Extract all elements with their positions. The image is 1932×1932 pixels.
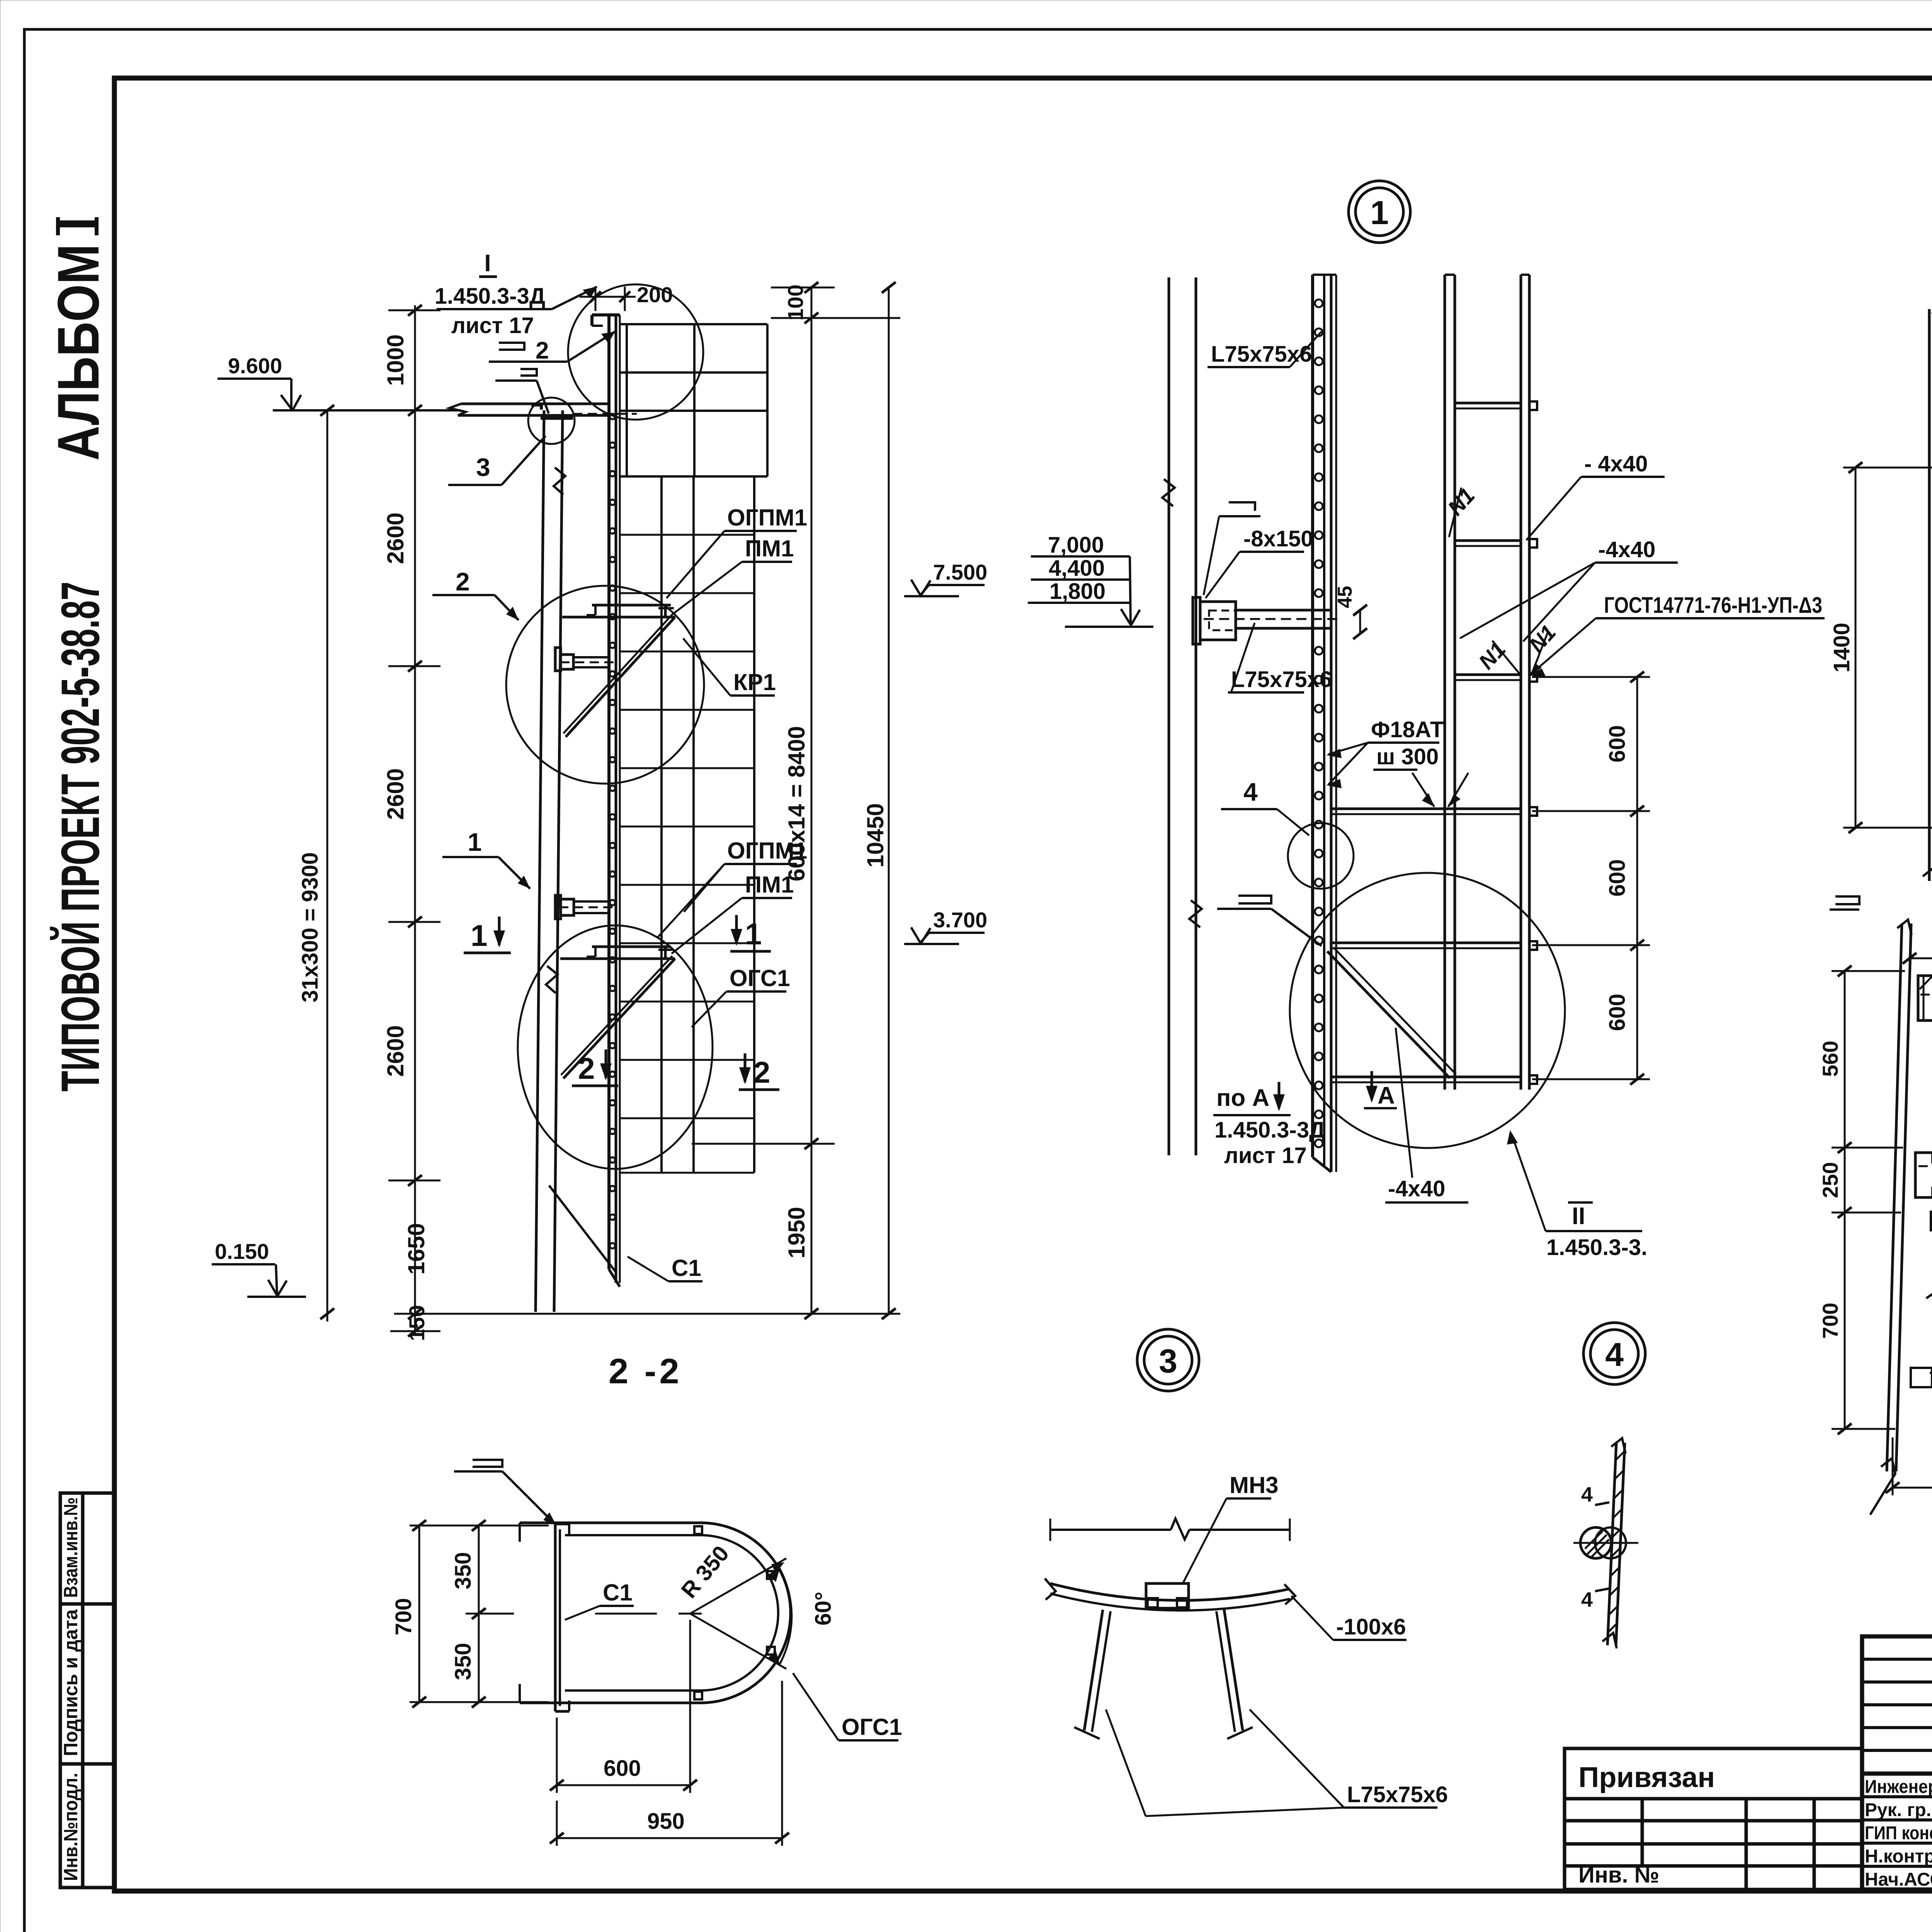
node circle 3 [1137,1329,1199,1391]
svg-text:МН3: МН3 [1230,1472,1279,1498]
svg-text:ТИПОВОЙ ПРОЕКТ 902-5-38.87: ТИПОВОЙ ПРОЕКТ 902-5-38.87 [50,582,111,1092]
label L75x75x6 upper [1207,332,1321,367]
tank wall (view 2-2) [536,410,544,1312]
rung 4 support level [1331,808,1521,810]
lower platform I-beam section [664,947,667,959]
svg-text:II: II [1572,1203,1585,1230]
plan stringer channel C1 [554,1524,557,1711]
node 3 detail circle [528,398,575,444]
dimension chain left outer 31x300 [320,405,334,1321]
dimension 10450 [882,282,896,1319]
weld tag N1 b [1474,637,1521,675]
stamp box inv [60,1764,114,1888]
svg-text:2600: 2600 [383,1025,408,1077]
dim 250 sec11 [1903,932,1932,983]
svg-text:1.450.3-3Д: 1.450.3-3Д [435,284,545,309]
label GOST weld [1529,593,1825,678]
callout 2 top [489,332,615,364]
dimension 600x14=8400 [692,282,900,1149]
svg-text:Подпись и дата: Подпись и дата [60,1609,82,1756]
svg-text:КР1: КР1 [733,669,776,695]
level mark 7.500 [904,560,987,596]
angle arc 60 [779,1567,792,1665]
label PM1 lower [672,872,794,954]
wall breaks sec11 [1897,920,1912,935]
svg-text:- 4x40: - 4x40 [1584,451,1648,476]
svg-text:лист 17: лист 17 [451,313,534,338]
dimension chain left inner [388,305,440,1337]
dimension 200 (top) [580,282,673,311]
label PM1 upper [672,536,794,614]
svg-text:1: 1 [745,917,762,951]
cage guard verticals [660,476,663,1173]
roof slab at 9.600 [461,403,611,405]
svg-text:Ф18АТ: Ф18АТ [1371,717,1444,742]
wall break marks view1 [1162,479,1175,506]
levels 7000 4400 1800 [1028,532,1153,627]
svg-text:L75x75x6: L75x75x6 [1231,667,1332,692]
plan guard bottom rail [520,1702,701,1704]
level mark 0.150 [212,1239,306,1297]
svg-text:600: 600 [604,1756,641,1781]
rung 1 [1455,402,1521,405]
left leg angle [1084,1610,1103,1730]
channel callout view1 [1217,896,1321,946]
channel callout sec11 left [1926,1277,1932,1298]
svg-text:-4x40: -4x40 [1598,537,1655,562]
guard attach tab left top [1931,1212,1932,1230]
KP1 wall channel [1915,1153,1932,1197]
dim 45 [1334,586,1367,639]
label -4x40 top [1526,451,1665,540]
stringer holes view1 [1315,299,1323,1147]
top platform railing grid [621,324,767,476]
svg-text:100: 100 [783,284,808,320]
svg-text:Инженер: Инженер [1865,1777,1932,1797]
svg-text:700: 700 [391,1598,416,1636]
bracket hidden line [573,413,637,415]
plate hatching [1608,1452,1624,1633]
plan guard top rail [520,1522,701,1524]
svg-text:Взам.инв.№: Взам.инв.№ [60,1497,82,1598]
callout II reference [1507,1130,1647,1260]
bottom diagonal brace [549,1185,617,1273]
weld arrows at rung4 [1412,773,1468,807]
guard attach tab left bottom [1911,1368,1932,1387]
MN3 embedded plate [1146,1583,1189,1608]
section mark 2 right [739,1053,779,1090]
svg-text:10450: 10450 [862,803,888,868]
wall bottom break [1923,868,1932,927]
diagonal brace view1 [1327,951,1450,1078]
leader 3 [448,436,546,485]
weld tag N1 a [1443,483,1480,537]
label L75x75x6 lower [1228,623,1332,692]
tank wall (view 1) [1168,277,1170,1155]
section mark 2 left [572,1049,618,1086]
node circle 1 [1349,181,1410,243]
svg-text:7,000: 7,000 [1048,532,1104,558]
plan baluster squares [694,1526,702,1534]
C12 channel top attach [1918,976,1932,1020]
album numeral serifs [56,217,60,235]
middle platform beam [562,616,675,619]
svg-text:Инв.№подл.: Инв.№подл. [60,1773,82,1881]
svg-text:ГОСТ14771-76-Н1-УП-Δ3: ГОСТ14771-76-Н1-УП-Δ3 [1604,593,1822,618]
svg-text:Привязан: Привязан [1578,1761,1715,1793]
stamp box podpis [60,1604,114,1764]
label -100x6 [1291,1596,1406,1640]
plan center mark [679,1613,702,1615]
svg-text:950: 950 [647,1809,685,1834]
bolt circle [1580,1527,1611,1558]
svg-text:4: 4 [1605,1336,1624,1373]
middle anchor plate KP1 [555,648,561,671]
svg-text:ОГС1: ОГС1 [842,1714,902,1740]
top detail circle I [568,284,703,420]
svg-text:-100x6: -100x6 [1336,1614,1406,1639]
radius line upper [690,1558,786,1614]
rung 3 [1455,673,1521,676]
svg-text:Нач.АСО: Нач.АСО [1865,1869,1932,1890]
tank wall (section 1-1) [1887,923,1902,1471]
svg-text:ГИП конс: ГИП конс [1865,1823,1932,1844]
svg-text:2600: 2600 [383,512,408,564]
label -4x40 bottom [1385,1028,1468,1202]
svg-text:2: 2 [456,567,470,596]
svg-text:1.450.3-3.: 1.450.3-3. [1546,1235,1647,1260]
label C1 [628,1255,702,1281]
corner mark view1 [1204,502,1260,595]
radius arrow [771,1562,784,1573]
lower platform PM1 deck [592,946,671,948]
plan dim 600 [550,1620,697,1793]
middle diagonal brace [566,617,675,737]
svg-text:150: 150 [405,1305,429,1341]
title small table rows [1862,1636,1932,1889]
bracket node 3 plate [541,415,573,420]
svg-text:4: 4 [1581,1588,1593,1611]
svg-text:С1: С1 [672,1255,701,1281]
rung holes on stringer [610,414,615,1248]
svg-text:L75x75x6: L75x75x6 [1347,1782,1448,1807]
svg-text:2 -2: 2 -2 [609,1352,682,1391]
svg-text:4: 4 [1581,1483,1593,1506]
label -4x40 mid [1460,537,1678,641]
plan channel callout [454,1460,556,1526]
middle platform PM1 deck [592,604,671,607]
detail3 curved wall top [1050,1583,1290,1600]
svg-text:3.700: 3.700 [933,908,987,932]
title block frame [1862,1636,1932,1889]
svg-text:7.500: 7.500 [933,560,987,584]
svg-text:0.150: 0.150 [215,1239,269,1264]
detail4 plate bar [1607,1443,1616,1645]
svg-text:лист 17: лист 17 [1224,1143,1307,1168]
svg-text:4: 4 [1243,777,1258,806]
callout I reference [435,250,597,338]
svg-text:1: 1 [1370,194,1389,231]
left stringer with holes [1311,275,1314,1157]
label KP1 [683,638,776,696]
label OGPM1 upper [667,505,807,598]
svg-text:60°: 60° [811,1592,836,1626]
stringer bottom cut [609,1269,620,1287]
leader 2 middle [432,567,519,620]
svg-text:350: 350 [451,1643,476,1680]
svg-text:600x14 = 8400: 600x14 = 8400 [784,726,810,881]
plan dim 350/350 [466,1520,514,1708]
svg-text:2: 2 [578,1051,595,1085]
lower detail ellipse [518,925,713,1169]
wall bracket plate view1 [1193,597,1200,644]
svg-text:45: 45 [1334,586,1356,608]
svg-text:ПМ1: ПМ1 [745,536,794,561]
node circle 4 [1583,1323,1645,1384]
svg-text:3: 3 [476,453,490,481]
label OGPM1 lower [657,838,807,938]
svg-text:С1: С1 [603,1580,633,1605]
stringer top cap [592,313,620,316]
ladder stringer front right [1520,275,1522,1090]
privyazan table [1565,1748,1862,1889]
svg-text:Инв. №: Инв. № [1578,1862,1659,1888]
svg-text:3: 3 [1159,1343,1177,1380]
channel callout view2 bottom [1830,896,1859,910]
svg-text:1: 1 [468,828,482,856]
svg-text:L75x75x6: L75x75x6 [1211,342,1312,367]
svg-text:250: 250 [1818,1162,1842,1198]
tank wall (view 2) [1928,309,1931,881]
lower diagonal brace [563,959,675,1078]
section arrow A [1364,1071,1397,1109]
detail3 top reference line [1050,1529,1171,1531]
svg-text:-4x40: -4x40 [1388,1176,1445,1201]
radius line lower [690,1614,786,1669]
svg-text:700: 700 [1818,1303,1842,1338]
wall break marks [554,468,565,495]
svg-text:1650: 1650 [403,1223,429,1274]
svg-text:600: 600 [1605,994,1630,1031]
label C12 sec11 [1920,894,1932,989]
stamp box vzam [60,1493,114,1604]
label F18AT sh300 [1326,717,1444,788]
svg-text:А: А [1378,1082,1395,1109]
svg-text:560: 560 [1818,1041,1842,1077]
small detail circle node 4 [1288,823,1354,889]
middle platform I-beam section [664,605,667,617]
rung 2 [1455,539,1521,542]
svg-text:2600: 2600 [383,768,408,820]
dimension 600 chain view1 [1532,672,1650,1085]
label MN3 [1183,1472,1279,1583]
leader 4 small circle [1221,777,1309,835]
callout po A [1213,1082,1325,1168]
dimension 1400 [1843,462,1932,833]
section mark 1 right [730,915,771,951]
svg-text:ОГС1: ОГС1 [730,965,790,991]
svg-text:9.600: 9.600 [228,354,282,378]
svg-text:31x300 = 9300: 31x300 = 9300 [298,852,323,1003]
plan dim 700 [410,1520,549,1708]
svg-text:по А: по А [1216,1085,1269,1111]
weld tag N1 c [1524,620,1561,676]
lower anchor plate KP1 [555,895,561,919]
svg-text:350: 350 [451,1552,476,1590]
ladder stringer front left [1444,275,1446,1090]
svg-text:200: 200 [637,282,673,307]
level mark 9.600 [218,354,461,410]
svg-text:-8x150: -8x150 [1243,526,1313,551]
section mark 1 left [464,917,511,953]
label OGS1 [692,965,790,1027]
svg-text:1400: 1400 [1829,622,1854,672]
callout channel small [495,369,549,413]
svg-text:600: 600 [1605,725,1630,763]
svg-text:1: 1 [471,918,487,952]
svg-text:Рук. гр.: Рук. гр. [1865,1800,1931,1820]
lower platform beam [560,957,675,960]
middle detail circle [506,586,704,784]
ladder stringer C1 [607,315,611,1269]
svg-text:АЛЬБОМ I: АЛЬБОМ I [46,217,111,461]
svg-text:1950: 1950 [784,1207,810,1258]
svg-text:4,400: 4,400 [1049,556,1105,581]
label L75x75x6 det3 [1106,1709,1448,1816]
svg-text:2: 2 [536,337,549,364]
big detail circle lower [1290,873,1565,1148]
svg-text:2: 2 [753,1055,770,1089]
dimension 1950 line [394,1144,900,1319]
plan guard arc OGS1 [701,1523,791,1703]
label -8x150 [1206,526,1313,598]
svg-text:Н.контр.: Н.контр. [1865,1846,1932,1867]
cage hoop ties [621,535,754,1173]
left dim chain sec11 [1832,966,1905,1434]
dim 300 sec11 [1886,1382,1932,1495]
label C1 plan [565,1580,634,1620]
leader 1 lower [442,828,530,889]
rung 6 bottom level [1331,1076,1521,1078]
svg-text:1000: 1000 [383,334,408,386]
svg-text:1,800: 1,800 [1049,579,1105,604]
rung 5 support level [1331,942,1521,944]
svg-text:1.450.3-3Д: 1.450.3-3Д [1214,1117,1325,1143]
svg-text:ОГПМ1: ОГПМ1 [727,505,807,531]
label OGS1 plan [793,1673,902,1740]
svg-text:600: 600 [1605,859,1630,897]
plan dim 950 [550,1681,789,1846]
cage outer rail [753,476,755,1173]
svg-text:ш 300: ш 300 [1376,744,1439,769]
svg-text:I: I [484,250,491,277]
right leg angle [1224,1610,1243,1730]
level mark 3.700 [904,908,987,944]
label -8x200 sec11 [1930,1298,1932,1374]
